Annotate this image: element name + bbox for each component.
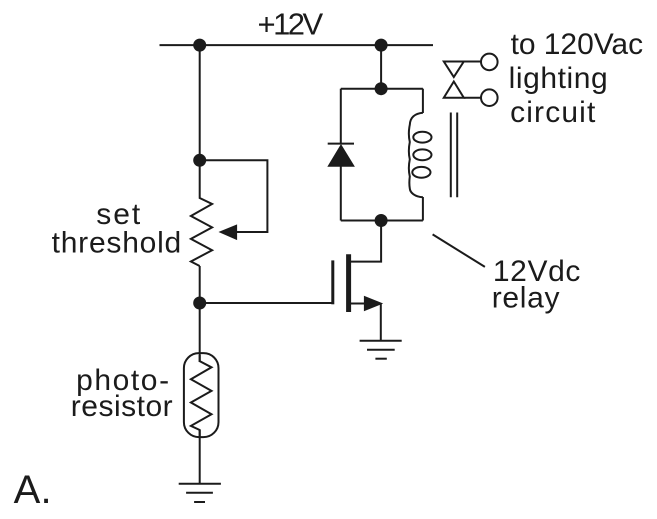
potentiometer R1 set threshold bbox=[191, 160, 212, 266]
diode triangle bbox=[328, 145, 354, 166]
MOSFET Q1 bbox=[333, 254, 383, 312]
ground (photoresistor) bbox=[179, 484, 221, 502]
MOSFET gate bar bbox=[331, 260, 334, 304]
junction node relay loop bottom bbox=[375, 214, 388, 227]
wire relay loop bottom bbox=[341, 220, 423, 222]
wire diode branch upper bbox=[340, 89, 342, 144]
wire MOSFET source to ground bbox=[351, 303, 366, 305]
wire lower node down to photoresistor bbox=[199, 303, 201, 362]
contact triangle upper bbox=[444, 62, 464, 78]
svg-text:resistor: resistor bbox=[71, 390, 173, 423]
pointer line to 12Vdc relay label bbox=[433, 234, 485, 267]
svg-text:A.: A. bbox=[14, 468, 52, 512]
contact triangle lower bbox=[444, 82, 464, 98]
svg-text:lighting: lighting bbox=[509, 62, 609, 95]
wire pot wiper loop bbox=[200, 160, 268, 232]
wire +12V rail bbox=[160, 44, 434, 46]
relay core bars bbox=[451, 113, 457, 198]
potentiometer wiper arrow bbox=[220, 225, 237, 239]
wire relay loop top bbox=[341, 88, 423, 90]
svg-text:relay: relay bbox=[492, 282, 561, 315]
MOSFET channel bar bbox=[346, 254, 351, 312]
wire lower node to MOSFET gate bbox=[200, 302, 332, 304]
wire photoresistor to ground bbox=[199, 430, 201, 484]
junction node relay loop top bbox=[375, 82, 388, 95]
wire loop bottom to MOSFET drain bbox=[351, 221, 381, 262]
wire rail to relay loop top bbox=[380, 45, 382, 89]
svg-text:+12V: +12V bbox=[258, 7, 324, 42]
junction node pot bottom / gate bbox=[193, 297, 206, 310]
wire diode branch lower bbox=[340, 166, 342, 220]
svg-text:threshold: threshold bbox=[52, 227, 182, 260]
wire pot bottom to lower node bbox=[199, 266, 201, 303]
svg-text:circuit: circuit bbox=[510, 96, 596, 129]
contact terminal circle upper bbox=[481, 54, 498, 71]
contact lead lower bbox=[464, 97, 481, 99]
junction node pot top bbox=[193, 154, 206, 167]
svg-text:to 120Vac: to 120Vac bbox=[511, 28, 643, 61]
photoresistor PR1 body bbox=[184, 353, 219, 437]
contact lead upper bbox=[464, 61, 481, 63]
diode cathode bar bbox=[328, 143, 354, 145]
relay coil L1 bbox=[409, 113, 432, 198]
junction node rail-left bbox=[193, 39, 206, 52]
junction node rail-right bbox=[375, 39, 388, 52]
photoresistor zigzag bbox=[191, 355, 212, 437]
wire left branch from rail to pot top bbox=[199, 45, 201, 160]
wire coil branch upper bbox=[422, 89, 424, 113]
relay contacts K1 bbox=[444, 54, 498, 106]
contact terminal circle lower bbox=[481, 89, 498, 106]
ground (MOSFET source) bbox=[360, 341, 402, 359]
diode D1 (flyback) bbox=[328, 144, 354, 167]
MOSFET source arrow bbox=[364, 296, 383, 311]
wire coil branch lower bbox=[422, 197, 424, 221]
